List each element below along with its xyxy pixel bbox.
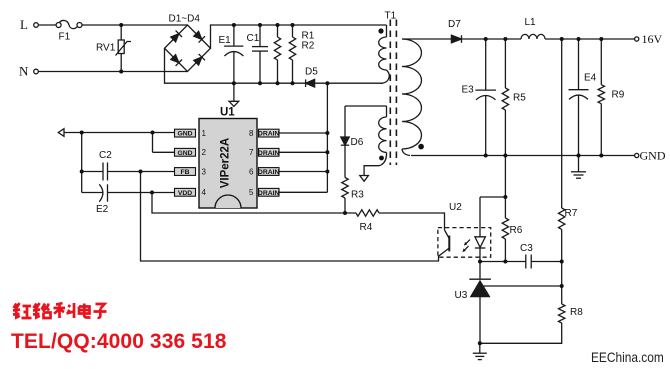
svg-text:DRAIN: DRAIN: [258, 150, 280, 157]
svg-text:L1: L1: [525, 17, 537, 28]
svg-text:C1: C1: [247, 33, 260, 44]
svg-text:R7: R7: [565, 208, 578, 219]
svg-text:R2: R2: [302, 41, 315, 52]
svg-text:R4: R4: [360, 222, 373, 233]
svg-text:RV1: RV1: [96, 43, 116, 54]
svg-text:1: 1: [202, 129, 207, 138]
svg-text:D6: D6: [351, 137, 364, 148]
svg-text:E4: E4: [584, 73, 597, 84]
svg-text:T1: T1: [385, 11, 397, 22]
svg-text:N: N: [19, 64, 29, 79]
svg-text:DRAIN: DRAIN: [258, 169, 280, 176]
svg-text:VDD: VDD: [178, 190, 192, 197]
svg-text:GND: GND: [640, 149, 666, 163]
svg-text:R9: R9: [612, 90, 625, 101]
svg-text:U2: U2: [449, 202, 462, 213]
svg-text:U3: U3: [455, 290, 468, 301]
svg-text:R5: R5: [513, 93, 526, 104]
svg-text:U1: U1: [220, 107, 235, 119]
svg-text:E1: E1: [219, 35, 232, 46]
svg-text:C3: C3: [520, 243, 533, 254]
svg-text:7: 7: [249, 148, 254, 157]
svg-text:5: 5: [249, 188, 254, 197]
svg-text:DRAIN: DRAIN: [258, 190, 280, 197]
svg-text:D7: D7: [448, 19, 461, 30]
svg-text:D1~D4: D1~D4: [169, 14, 201, 25]
svg-text:L: L: [20, 17, 28, 32]
svg-text:C2: C2: [99, 150, 112, 161]
svg-text:R8: R8: [570, 307, 583, 318]
svg-text:GND: GND: [177, 131, 192, 138]
svg-text:D5: D5: [305, 67, 318, 78]
svg-text:FB: FB: [180, 169, 189, 176]
svg-text:GND: GND: [177, 150, 192, 157]
svg-text:3: 3: [202, 167, 207, 176]
svg-text:16V: 16V: [642, 32, 663, 46]
svg-text:F1: F1: [59, 32, 71, 43]
svg-text:VIPer22A: VIPer22A: [220, 138, 232, 189]
svg-text:E3: E3: [462, 85, 475, 96]
svg-text:8: 8: [249, 129, 254, 138]
svg-text:4: 4: [202, 188, 207, 197]
svg-text:R3: R3: [351, 190, 364, 201]
svg-text:2: 2: [202, 148, 207, 157]
svg-text:R6: R6: [510, 225, 523, 236]
svg-text:6: 6: [249, 167, 254, 176]
svg-text:DRAIN: DRAIN: [258, 131, 280, 138]
svg-text:E2: E2: [96, 204, 109, 215]
